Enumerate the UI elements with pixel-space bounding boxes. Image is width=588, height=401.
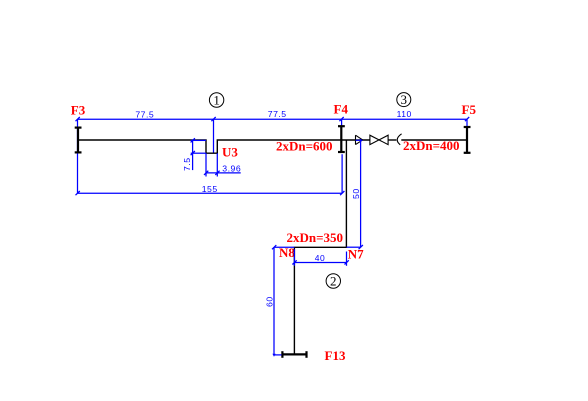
svg-text:F4: F4 [334,102,349,117]
svg-text:2xDn=350: 2xDn=350 [287,230,344,245]
extension line F3 [77,119,79,193]
node label 3 circle [397,92,411,107]
pipe valve to reducer [388,139,396,141]
svg-text:77.5: 77.5 [135,110,154,120]
svg-text:7.5: 7.5 [182,157,192,171]
extension line F4 lower [341,154,343,193]
flange F3 [75,127,82,153]
flange F4 [338,125,345,152]
svg-text:2: 2 [330,273,337,288]
svg-text:F5: F5 [462,102,477,117]
svg-text:F3: F3 [71,103,86,118]
node label 1 circle [209,92,223,107]
svg-text:3.96: 3.96 [222,163,241,173]
svg-text:U3: U3 [222,145,238,160]
svg-text:2xDn=600: 2xDn=600 [276,139,333,154]
gate valve [370,135,388,144]
extension line node1 [213,119,215,153]
svg-text:50: 50 [351,188,361,199]
pipe main left [78,140,370,153]
check valve [356,135,363,144]
arrow head 50 top [360,139,363,142]
dimension 3.96 [204,153,241,176]
extension line F4 upper [341,119,343,126]
dimension 155 [76,191,345,195]
svg-text:N7: N7 [348,247,364,262]
dimension 60 [272,245,294,355]
svg-text:1: 1 [213,92,220,107]
dimension 40 [292,249,348,266]
dimension 7.5 [191,138,206,170]
svg-text:F13: F13 [325,348,346,363]
extension line F5 [466,119,468,126]
svg-text:40: 40 [315,253,325,263]
svg-text:60: 60 [265,296,275,307]
svg-text:3: 3 [401,92,408,107]
reducer arc [397,134,401,145]
flange F5 [464,126,471,153]
svg-text:77.5: 77.5 [268,109,287,119]
dimension 50 [347,140,363,249]
svg-text:110: 110 [397,109,412,119]
flange F13 [282,351,308,358]
arrow head 60 bottom [272,354,275,357]
dimension line top 77.5/77.5/110 [76,117,470,121]
svg-text:155: 155 [202,184,218,194]
pipe branch down [294,140,346,354]
node label 2 circle [326,273,340,288]
pipe reducer to F5 [401,139,467,141]
